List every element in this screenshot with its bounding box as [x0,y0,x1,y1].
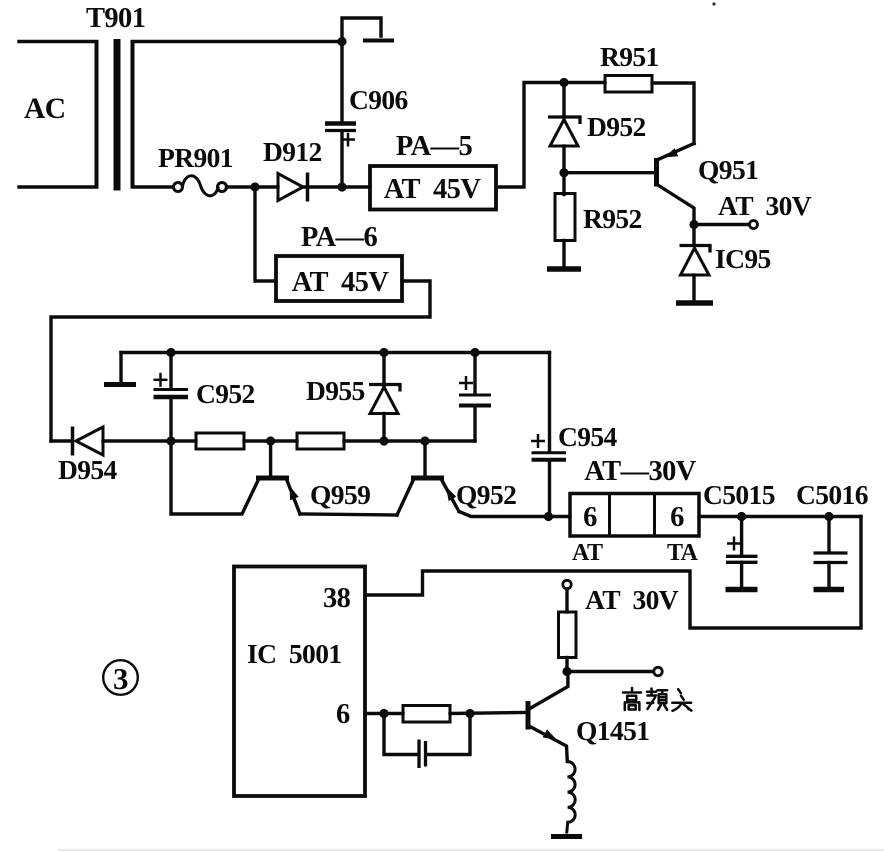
svg-text:R952: R952 [583,203,642,234]
resistor (unlabeled base) [403,706,450,723]
transformer T901 core [114,39,121,191]
wire node to PA-6 [255,187,276,281]
svg-text:D952: D952 [587,111,646,142]
svg-text:AT—30V: AT—30V [584,456,696,487]
svg-text:6: 6 [336,699,350,730]
resistor (unlabeled left) [196,433,244,449]
resistor (unlabeled collector) [559,612,577,658]
wire [549,515,571,518]
ground under R952 [547,266,581,272]
wire secondary top [133,40,343,43]
svg-text:AT 45V: AT 45V [292,267,390,298]
wire pin 6 [365,712,403,715]
node C5016 top [824,512,833,521]
block AT-30V [570,494,699,537]
svg-text:Q952: Q952 [456,479,516,510]
diode D954 [73,427,197,456]
svg-text:PA—5: PA—5 [396,131,473,162]
terminal AT30V lower [563,580,571,588]
resistor R952 [555,173,575,267]
wire fuse to diode [227,185,279,188]
resistor R951 [605,76,652,93]
scan speck [712,2,715,5]
node junction to PA-6 [250,182,259,191]
node C5015 top [737,512,746,521]
svg-text:D954: D954 [58,454,118,485]
transformer T901 primary winding [95,40,99,189]
wire PA-6 out loop down-left [51,281,430,441]
ground under coil [551,834,582,839]
node base junction [559,168,568,177]
node cap2 top [470,348,479,357]
zener D952 [548,83,580,174]
wire big loop to pin 38 [365,517,861,629]
wire to terminal [694,223,749,226]
transistor Q1451 [528,673,568,762]
svg-text:Q951: Q951 [698,154,758,185]
node pin6 right [465,709,474,718]
label tuner (Chinese) [623,688,691,711]
svg-text:38: 38 [323,583,351,614]
wire [244,439,297,442]
node Q959 base junction [266,436,275,445]
capacitor C5016 [814,517,848,588]
svg-text:T901: T901 [86,3,145,34]
node AT30V junction [689,220,698,229]
capacitor (unlabeled) [459,353,491,442]
capacitor C906 [325,42,356,188]
svg-text:IC95: IC95 [715,243,771,274]
svg-text:AT 30V: AT 30V [585,584,679,615]
svg-text:6: 6 [670,502,684,533]
svg-text:AT: AT [572,540,603,566]
wire left rail [51,439,70,442]
node pin6 left [379,709,388,718]
svg-text:R951: R951 [600,41,659,72]
svg-text:C952: C952 [196,378,255,409]
wire block out [699,515,861,518]
capacitor C952 [154,353,189,442]
ground stub left [119,353,122,382]
node D955 bottom [379,436,388,445]
svg-text:D955: D955 [306,375,365,406]
svg-text:6: 6 [583,502,597,533]
svg-text:PR901: PR901 [158,142,233,173]
svg-text:D912: D912 [263,136,322,167]
svg-text:C5015: C5015 [703,479,775,510]
svg-text:AT 30V: AT 30V [718,190,812,221]
capacitor C5015 [726,517,758,588]
inductor (emitter coil) [567,761,575,832]
circled 3 [103,660,138,696]
wire R951 to Q951 emitter [652,83,694,144]
svg-text:Q959: Q959 [310,479,370,510]
wire to base [450,713,526,714]
svg-text:AT 45V: AT 45V [384,174,482,205]
svg-text:C5016: C5016 [796,479,868,510]
ground under IC95 [676,300,713,306]
chassis bar [363,39,394,43]
power block PA-6 [276,256,402,301]
wire middle top rail [121,351,550,354]
transistor Q959 [171,441,397,515]
wire secondary bottom [133,185,175,188]
zener IC95 [680,226,711,301]
wire [344,439,475,442]
node C952 bottom junction [166,436,175,445]
node top junction [337,37,346,46]
terminal AT30V [750,221,758,229]
svg-text:Q1451: Q1451 [576,715,649,746]
wire to tuner terminal [567,670,654,673]
svg-text:C954: C954 [558,421,618,452]
svg-text:AC: AC [24,93,65,125]
ground under C5015 [726,587,758,593]
node D955 top [379,348,388,357]
wire diode to PA-5 [303,185,370,188]
capacitor (bypass, unlabeled) [384,714,470,769]
node Q952 base junction [420,436,429,445]
IC block IC5001 [234,567,365,797]
transistor Q951 [657,144,695,227]
wire AC primary top [19,40,97,43]
wire PA-5 out up to R951 rail [496,83,605,188]
power block PA-5 [370,166,496,210]
ground bar [104,382,136,387]
ground under C5016 [814,587,845,593]
wire terminal to resistor [565,589,568,612]
svg-text:C906: C906 [349,84,408,115]
fuse PR901 [174,176,227,196]
zener D955 [369,353,400,442]
svg-text:3: 3 [113,661,128,696]
transformer T901 secondary winding [131,40,135,189]
wire stub connector [342,18,381,42]
wire base [564,171,654,174]
diode D912 [278,173,308,202]
node D952 top [559,78,568,87]
node collector [562,667,571,676]
node block input [544,512,553,521]
terminal tuner [654,667,662,675]
wire resistor to node [565,658,568,672]
node C952 top [166,348,175,357]
node C906 bottom junction [337,182,346,191]
svg-text:PA—6: PA—6 [301,222,378,253]
page edge artifact [58,849,884,851]
transistor Q952 [397,441,549,517]
resistor (unlabeled right) [297,433,344,449]
capacitor C954 [531,353,566,517]
svg-text:IC 5001: IC 5001 [247,638,342,669]
svg-text:TA: TA [667,540,699,566]
wire AC primary bottom [19,185,97,188]
